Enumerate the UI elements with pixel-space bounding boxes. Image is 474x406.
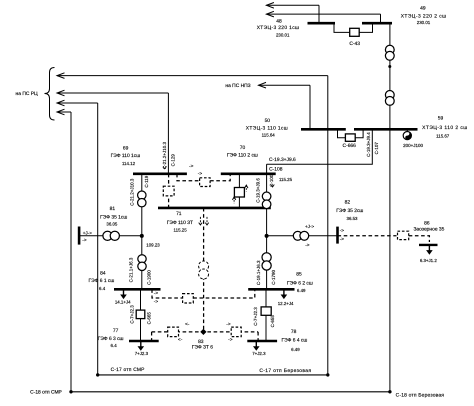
svg-text:6.49: 6.49 [291, 347, 300, 352]
svg-text:6.3+J1.2: 6.3+J1.2 [420, 258, 438, 263]
svg-text:С-19.1+J6.3: С-19.1+J6.3 [256, 260, 261, 285]
svg-text:С-21.2+J10.3: С-21.2+J10.3 [162, 141, 167, 169]
svg-text:69: 69 [123, 146, 129, 152]
svg-text:ГЭФ 110 2 сш: ГЭФ 110 2 сш [227, 153, 258, 159]
svg-text:С-19.3+J9.6: С-19.3+J9.6 [256, 178, 261, 203]
svg-text:ГЭФ 6 1 сш: ГЭФ 6 1 сш [89, 278, 115, 284]
svg-text:ГЭФ ЗТ 6: ГЭФ ЗТ 6 [192, 344, 213, 350]
svg-text:ГЭФ 35 2сш: ГЭФ 35 2сш [336, 208, 363, 214]
svg-text:77: 77 [113, 328, 119, 334]
svg-text:->: -> [340, 238, 345, 243]
svg-text:115.25: 115.25 [279, 177, 293, 182]
svg-text:78: 78 [291, 329, 297, 335]
svg-text:109.23: 109.23 [146, 243, 160, 248]
svg-text:115.67: 115.67 [436, 133, 450, 138]
svg-text:48: 48 [276, 18, 282, 24]
svg-text:С-119: С-119 [144, 175, 149, 187]
svg-text:С-19.3+J9.4: С-19.3+J9.4 [366, 132, 371, 157]
svg-text:71: 71 [176, 211, 182, 217]
svg-text:115.64: 115.64 [262, 133, 276, 138]
svg-text:82: 82 [345, 200, 351, 206]
svg-text:->: -> [305, 243, 310, 248]
svg-text:230.01: 230.01 [276, 32, 290, 37]
svg-text:С-108: С-108 [269, 167, 283, 173]
svg-text:С-19.3+J9.6: С-19.3+J9.6 [269, 157, 296, 163]
svg-text:36.53: 36.53 [347, 216, 359, 221]
svg-text:84: 84 [100, 270, 106, 276]
svg-text:7+J2.3: 7+J2.3 [135, 351, 149, 356]
svg-text:С-107: С-107 [374, 142, 379, 155]
svg-text:ГЭФ 110 1сш: ГЭФ 110 1сш [111, 153, 141, 159]
svg-text:С-21.1+J6.3: С-21.1+J6.3 [129, 257, 134, 282]
svg-text:->: -> [189, 165, 194, 170]
svg-text:114.12: 114.12 [122, 161, 136, 166]
svg-text:на ПС НПЗ: на ПС НПЗ [225, 83, 250, 89]
svg-text:ХТЭЦ-3 220 1сш: ХТЭЦ-3 220 1сш [257, 25, 300, 31]
svg-text:ГЭФ 6 2 сш: ГЭФ 6 2 сш [287, 280, 313, 286]
svg-text:->: -> [82, 238, 87, 243]
svg-text:7+J2.3: 7+J2.3 [252, 351, 266, 356]
svg-text:ХТЭЦ-3 220 2 сш: ХТЭЦ-3 220 2 сш [401, 13, 447, 19]
svg-text:ГЭФ 6 3 сш: ГЭФ 6 3 сш [98, 336, 124, 342]
svg-text:->: -> [154, 300, 159, 305]
svg-text:ГЭФ 6 4 сш: ГЭФ 6 4 сш [282, 338, 308, 344]
svg-text:ГЭФ 35 1сш: ГЭФ 35 1сш [100, 214, 127, 220]
svg-text:С-7+J2.3: С-7+J2.3 [253, 307, 258, 326]
svg-text:С-665: С-665 [146, 312, 151, 325]
svg-text:86: 86 [424, 220, 430, 226]
svg-text:С-17 отп Березовая: С-17 отп Березовая [259, 368, 311, 374]
svg-text:14.1+J4: 14.1+J4 [115, 300, 131, 305]
svg-text:83: 83 [198, 339, 204, 345]
svg-text:6.4: 6.4 [99, 286, 106, 291]
svg-text:200+J100: 200+J100 [403, 143, 423, 148]
svg-text:230.01: 230.01 [417, 20, 431, 25]
svg-text:С-17 отп СМР: С-17 отп СМР [111, 367, 145, 373]
svg-text:->: -> [340, 229, 345, 234]
svg-text:49: 49 [420, 6, 426, 12]
svg-text:81: 81 [110, 206, 116, 212]
svg-text:12.2+J4: 12.2+J4 [278, 301, 294, 306]
svg-text:36.05: 36.05 [106, 221, 118, 226]
svg-text:<-: <- [185, 323, 190, 328]
svg-text:С-655: С-655 [270, 315, 275, 328]
svg-text:С-21.2+J10.3: С-21.2+J10.3 [129, 178, 134, 206]
svg-text:->: -> [198, 172, 203, 177]
svg-text:85: 85 [296, 272, 302, 278]
svg-text:ХТЭЦ-3 110 1сш: ХТЭЦ-3 110 1сш [246, 126, 288, 132]
svg-text:->: -> [228, 338, 233, 343]
svg-text:С-129: С-129 [170, 154, 175, 167]
svg-text:ХТЭЦ-3 110 2 сш: ХТЭЦ-3 110 2 сш [422, 125, 467, 131]
svg-text:Заозерное 35: Заозерное 35 [413, 227, 444, 233]
svg-text:->: -> [154, 292, 159, 297]
svg-text:59: 59 [438, 116, 444, 122]
svg-text:->: -> [226, 323, 231, 328]
svg-text:6.4: 6.4 [111, 343, 118, 348]
svg-text:50: 50 [265, 118, 271, 124]
svg-text:С-666: С-666 [343, 143, 357, 149]
svg-text:С-1790: С-1790 [271, 270, 276, 285]
svg-text:ГЭФ 110 ЗТ: ГЭФ 110 ЗТ [167, 220, 193, 226]
svg-text:+J->: +J-> [83, 230, 93, 235]
svg-text:С-1900: С-1900 [146, 270, 151, 285]
svg-text:на ПС РЦ: на ПС РЦ [16, 91, 38, 97]
svg-text:<-: <- [178, 338, 183, 343]
svg-text:С-18 отп Березовая: С-18 отп Березовая [396, 392, 445, 398]
svg-text:С-18 отп СМР: С-18 отп СМР [30, 389, 62, 395]
svg-text:70: 70 [240, 145, 246, 151]
svg-text:6.49: 6.49 [297, 288, 306, 293]
svg-text:С-7+J2.3: С-7+J2.3 [130, 305, 135, 324]
svg-text:+J->: +J-> [305, 224, 315, 229]
svg-text:115.25: 115.25 [174, 228, 188, 233]
svg-text:С-43: С-43 [349, 41, 360, 47]
